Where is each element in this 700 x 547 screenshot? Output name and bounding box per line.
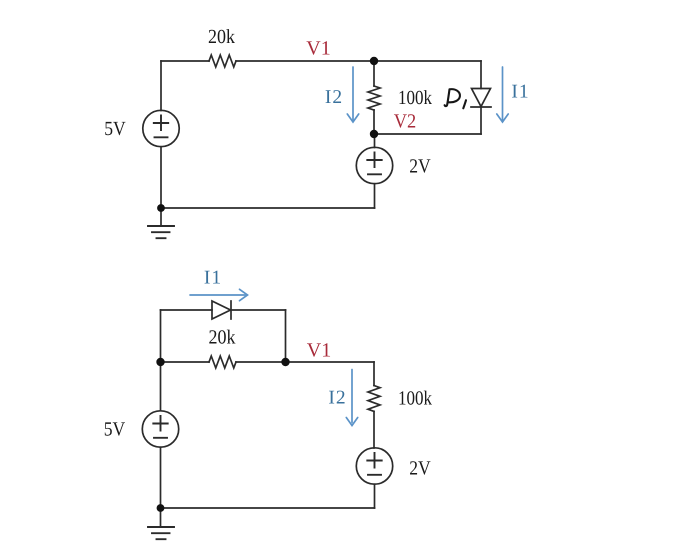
svg-text:20k: 20k (208, 26, 235, 48)
wire 20k branch left (node to resistor, bottom circuit) (161, 361, 210, 363)
svg-text:5V: 5V (104, 118, 126, 140)
resistor R 100k (bottom circuit) vertical zigzag (368, 386, 380, 412)
wire 100k branch lower (resistor to 2V source) (373, 411, 375, 448)
current arrow I2 (top circuit, blue, down) (347, 67, 358, 122)
voltage source 5V (top circuit) (143, 110, 179, 146)
wire top horizontal (resistor to node V1) (236, 60, 374, 62)
svg-text:V1: V1 (306, 38, 330, 60)
resistor R 100k (top circuit) vertical zigzag (368, 86, 380, 110)
voltage source 5V (bottom circuit) (142, 411, 178, 447)
wire left vertical lower (5V to bottom node) (160, 147, 162, 208)
wire right vertical of diode loop (285, 310, 287, 362)
ground node dot (bottom circuit) (157, 504, 165, 512)
wire node to 100k corner (bottom circuit) (286, 361, 375, 363)
ground (bottom circuit) (160, 508, 162, 527)
node V2 junction dot (top circuit) (370, 130, 378, 138)
node dot left (bottom circuit) (156, 358, 164, 366)
wire 100k branch upper (node V1 down to resistor) (373, 61, 375, 86)
wire left vertical (top corner to node, bottom circuit) (160, 310, 162, 362)
svg-text:20k: 20k (209, 327, 236, 349)
wire bottom horizontal (top circuit) (161, 207, 375, 209)
svg-text:I2: I2 (328, 388, 346, 409)
wire 20k branch right (resistor to node) (236, 361, 286, 363)
wire left vertical lower (5V to ground node, bottom circuit) (160, 447, 162, 508)
svg-text:100k: 100k (398, 388, 432, 410)
wire right branch bottom (diode to bottom-right corner) (480, 107, 482, 134)
voltage source 2V (bottom circuit) (356, 448, 392, 484)
wire bottom horizontal (bottom circuit) (161, 507, 375, 509)
label D1 handwritten annotation (445, 89, 466, 108)
resistor R 20k (top circuit) zigzag (209, 55, 236, 67)
wire left vertical upper (corner to 5V source) (160, 61, 162, 111)
svg-text:2V: 2V (409, 458, 431, 480)
wire right branch top (corner down to diode D1) (480, 61, 482, 89)
svg-text:I1: I1 (204, 268, 222, 289)
resistor R 20k (bottom circuit) zigzag (209, 356, 236, 368)
wire left vertical mid (node to 5V source, bottom circuit) (160, 362, 162, 411)
wire 2V branch lower (2V source to bottom wire) (374, 184, 376, 208)
wire 2V to bottom corner (bottom circuit) (374, 484, 376, 508)
current arrow I2 (bottom circuit, blue, down) (346, 370, 357, 426)
node V1 junction dot (top circuit) (370, 57, 378, 65)
diode D (bottom circuit, pointing right) (212, 301, 231, 319)
ground node dot (top circuit) (157, 204, 165, 212)
svg-text:100k: 100k (398, 87, 432, 109)
ground (top circuit) (160, 208, 162, 226)
svg-text:5V: 5V (104, 419, 126, 441)
current arrow I1 (bottom circuit, blue, right) (190, 289, 248, 300)
svg-text:2V: 2V (409, 156, 431, 178)
wire inner bottom (right corner to node V2) (375, 133, 482, 135)
wire diode branch right (diode to right corner) (231, 309, 286, 311)
diode D1 (top circuit, pointing down) (472, 89, 491, 107)
wire 100k branch lower (resistor down to node V2) (373, 110, 375, 134)
svg-text:I2: I2 (325, 87, 343, 108)
svg-text:V2: V2 (394, 111, 417, 133)
svg-text:I1: I1 (511, 82, 529, 103)
svg-text:V1: V1 (307, 340, 331, 362)
voltage source 2V (top circuit) (356, 147, 392, 183)
wire top horizontal (node V1 to right corner) (374, 60, 481, 62)
node V1 junction dot (bottom circuit) (281, 358, 289, 366)
wire 100k branch upper (corner down to resistor) (373, 362, 375, 386)
wire diode branch left (corner to diode) (161, 309, 213, 311)
wire 2V branch upper (node V2 to 2V source) (374, 134, 376, 148)
wire top-left horizontal (left corner to resistor) (161, 60, 209, 62)
current arrow I1 (top circuit, blue, down) (497, 67, 508, 122)
